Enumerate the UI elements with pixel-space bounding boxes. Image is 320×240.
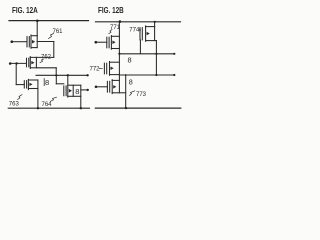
svg-text:FIG. 12A: FIG. 12A [12,5,38,15]
svg-text:FIG. 12B: FIG. 12B [98,5,124,15]
svg-text:773: 773 [136,92,147,98]
svg-text:764: 764 [42,102,53,108]
svg-text:8: 8 [75,87,79,96]
svg-text:761: 761 [53,29,64,35]
svg-text:8: 8 [128,55,132,64]
svg-text:8: 8 [45,78,49,87]
svg-text:771: 771 [110,25,121,31]
svg-text:762: 762 [41,55,52,61]
svg-text:8: 8 [129,78,133,87]
svg-text:763: 763 [9,101,20,107]
svg-text:772: 772 [90,67,101,73]
svg-text:774: 774 [129,27,140,33]
